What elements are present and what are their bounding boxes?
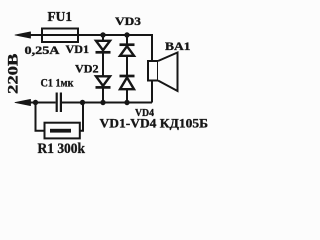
svg-text:220В: 220В — [6, 54, 22, 95]
svg-text:C1 1мк: C1 1мк — [41, 76, 74, 90]
svg-text:BA1: BA1 — [165, 39, 191, 53]
svg-text:VD2: VD2 — [75, 62, 99, 76]
svg-text:FU1: FU1 — [48, 9, 73, 24]
svg-text:R1 300k: R1 300k — [38, 141, 86, 157]
svg-text:VD3: VD3 — [115, 14, 141, 28]
svg-text:VD1: VD1 — [66, 42, 90, 56]
svg-text:0,25A: 0,25A — [25, 43, 60, 57]
svg-text:VD1-VD4 КД105Б: VD1-VD4 КД105Б — [100, 116, 209, 131]
